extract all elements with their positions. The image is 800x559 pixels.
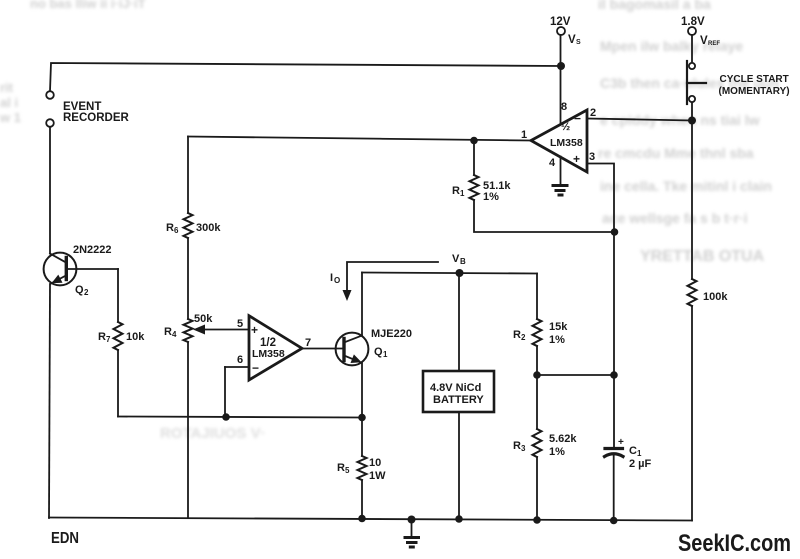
- svg-text:1: 1: [460, 189, 465, 198]
- resistor R2 15k: [536, 274, 538, 320]
- battery lead top: [458, 273, 460, 371]
- faint bleed-through background text: [598, 0, 711, 12]
- wire junction to C1: [537, 374, 614, 376]
- wire R1 bottom to pin3 line: [474, 200, 615, 232]
- svg-text:10k: 10k: [126, 331, 145, 343]
- node Q1 emitter / R5 junction: [358, 414, 366, 422]
- transistor Q1 MJE220: [336, 333, 369, 366]
- svg-text:4.8V NiCd: 4.8V NiCd: [430, 382, 481, 394]
- svg-text:R: R: [98, 331, 106, 343]
- wire VB rail: [362, 273, 537, 274]
- svg-text:R: R: [164, 326, 172, 338]
- svg-text:R: R: [337, 462, 345, 474]
- svg-text:1: 1: [383, 350, 388, 359]
- svg-text:SeekIC.com: SeekIC.com: [678, 530, 791, 557]
- battery 4.8V NiCd box: [423, 371, 494, 412]
- wire right rail down: [691, 121, 693, 280]
- svg-text:LM358: LM358: [550, 137, 583, 149]
- wire pin 4 to ground: [560, 157, 562, 185]
- wire pin 7 output to Q1 base: [302, 348, 344, 350]
- wire top rail from event recorder to 12V node: [50, 63, 561, 91]
- wire Q1 collector up to VB rail: [361, 273, 363, 336]
- node R2/R3 junction: [533, 371, 541, 379]
- svg-text:6: 6: [237, 354, 243, 366]
- svg-text:REF: REF: [708, 41, 720, 47]
- svg-text:15k: 15k: [549, 321, 568, 333]
- node R1/pin3 junction: [611, 228, 619, 236]
- capacitor C1 2uF: [613, 375, 615, 447]
- svg-text:8: 8: [561, 101, 567, 113]
- wire pin 6 stub: [225, 366, 249, 368]
- node R3 bottom: [533, 516, 541, 524]
- svg-text:I: I: [330, 272, 333, 284]
- node 12V junction: [557, 62, 565, 70]
- potentiometer R4 50k: [184, 319, 193, 342]
- svg-text:R: R: [513, 440, 521, 452]
- svg-text:R: R: [166, 222, 174, 234]
- resistor R1 51.1k: [473, 141, 475, 176]
- node C1 bottom: [610, 517, 618, 525]
- svg-text:S: S: [576, 39, 581, 46]
- svg-text:(MOMENTARY): (MOMENTARY): [719, 86, 790, 97]
- svg-text:1W: 1W: [369, 470, 386, 482]
- svg-text:4: 4: [172, 330, 177, 339]
- svg-text:1: 1: [521, 129, 527, 141]
- node battery bottom: [455, 515, 463, 523]
- svg-text:+: +: [573, 152, 580, 166]
- svg-text:R: R: [452, 185, 460, 197]
- node VB: [456, 269, 464, 277]
- svg-text:RECORDER: RECORDER: [63, 112, 130, 124]
- svg-text:10: 10: [369, 457, 381, 469]
- R4 wiper arrow: [200, 329, 249, 331]
- svg-text:5.62k: 5.62k: [549, 433, 577, 445]
- resistor R3 5.62k: [536, 375, 538, 429]
- wire switch to pin2 node: [691, 103, 693, 121]
- svg-text:½: ½: [561, 121, 570, 133]
- svg-text:2: 2: [521, 333, 526, 342]
- wire pin1 node to R1: [470, 137, 478, 145]
- wire Q2 emitter to bottom rail: [49, 284, 50, 518]
- wire pin1 feedback rail: [188, 137, 531, 141]
- svg-text:100k: 100k: [703, 291, 728, 303]
- wire Q2 base to R7: [66, 268, 118, 270]
- wire left rail down to Q2: [49, 127, 51, 254]
- svg-text:V: V: [700, 35, 708, 47]
- svg-text:−: −: [252, 361, 259, 375]
- node pin2/VREF junction: [688, 117, 696, 125]
- resistor R7 10k: [117, 269, 119, 322]
- svg-text:V: V: [452, 253, 460, 265]
- svg-text:V: V: [568, 34, 576, 46]
- terminal lower (event recorder): [46, 119, 54, 127]
- wire pin 3 to C1 line: [587, 164, 614, 376]
- wire R7 bottom to pin6 junction: [118, 417, 362, 418]
- svg-text:5: 5: [237, 318, 243, 330]
- current arrow I0: [347, 262, 438, 294]
- svg-text:1%: 1%: [549, 446, 565, 458]
- terminal 12V Vs: [557, 27, 565, 35]
- ground (bottom rail): [408, 516, 416, 524]
- svg-text:5: 5: [345, 466, 350, 475]
- wire left branch x=188: [187, 137, 189, 214]
- wire pin 2 to switch node: [587, 119, 692, 121]
- svg-text:BATTERY: BATTERY: [433, 394, 484, 406]
- svg-text:LM358: LM358: [252, 348, 285, 360]
- svg-text:300k: 300k: [196, 222, 221, 234]
- svg-text:4: 4: [549, 157, 556, 169]
- svg-text:50k: 50k: [194, 313, 213, 325]
- svg-text:3: 3: [521, 444, 526, 453]
- op-amp U1 1/2 LM358 (lower): [249, 316, 302, 380]
- svg-text:1: 1: [637, 449, 642, 458]
- transistor Q2 2N2222: [44, 253, 77, 286]
- svg-text:EDN: EDN: [51, 530, 79, 547]
- svg-text:1.8V: 1.8V: [681, 16, 705, 28]
- svg-text:3: 3: [589, 151, 595, 163]
- svg-text:7: 7: [106, 335, 111, 344]
- svg-text:−: −: [574, 112, 581, 126]
- svg-text:O: O: [334, 276, 340, 285]
- node R5 bottom: [358, 515, 366, 523]
- wire pin 8 supply: [560, 35, 562, 123]
- svg-text:2: 2: [84, 288, 89, 297]
- svg-text:MJE220: MJE220: [371, 328, 412, 340]
- resistor R5 10 1W: [361, 418, 363, 457]
- wire VREF to switch: [691, 35, 693, 62]
- svg-text:Q: Q: [75, 284, 84, 296]
- svg-text:7: 7: [305, 337, 311, 349]
- svg-text:CYCLE START: CYCLE START: [720, 74, 789, 85]
- wire bottom ground rail: [49, 518, 692, 521]
- svg-text:C: C: [629, 445, 637, 457]
- wire Q1 emitter down: [361, 363, 363, 418]
- svg-text:1%: 1%: [483, 191, 499, 203]
- svg-text:12V: 12V: [550, 16, 571, 28]
- ground (op-amp pin4): [553, 184, 567, 187]
- svg-text:Q: Q: [374, 346, 383, 358]
- resistor 100k: [688, 279, 697, 306]
- svg-text:+: +: [251, 323, 258, 337]
- svg-text:6: 6: [174, 226, 179, 235]
- node C1 top junction: [610, 371, 618, 379]
- svg-text:B: B: [460, 257, 466, 266]
- op-amp U2 1/2 LM358 (upper, pointing left): [531, 110, 587, 172]
- terminal upper (event recorder): [46, 91, 54, 99]
- resistor R6 300k: [184, 213, 193, 238]
- svg-text:2: 2: [590, 107, 596, 119]
- svg-text:R: R: [513, 329, 521, 341]
- battery lead bottom: [458, 412, 460, 519]
- node pin6 junction: [222, 413, 230, 421]
- terminal 1.8V VREF: [688, 27, 696, 35]
- wire pin 6 drop: [224, 367, 226, 417]
- svg-text:2N2222: 2N2222: [73, 244, 112, 256]
- svg-text:+: +: [618, 437, 624, 448]
- svg-text:1%: 1%: [549, 334, 565, 346]
- switch CYCLE START momentary: [689, 63, 695, 69]
- svg-text:2 µF: 2 µF: [629, 458, 652, 470]
